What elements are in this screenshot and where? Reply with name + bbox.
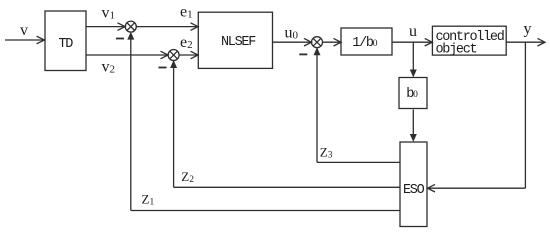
label y (524, 21, 532, 38)
svg-text:Z1: Z1 (142, 192, 155, 208)
wire u 1/b0 to controlled object (392, 38, 432, 46)
summing junction J3 (312, 37, 323, 48)
wire y feedback down and into ESO (428, 42, 526, 192)
label v1 (102, 5, 116, 22)
svg-text:u: u (409, 23, 417, 40)
svg-text:v1: v1 (102, 5, 116, 22)
label u0 (285, 24, 299, 41)
block 1/b0 (341, 28, 392, 55)
label Z2 (181, 169, 194, 185)
block ESO (400, 142, 427, 227)
svg-text:v2: v2 (102, 59, 116, 76)
summing junction J2 (168, 50, 179, 61)
wire u branch down to b0 (410, 42, 417, 77)
svg-text:e1: e1 (180, 4, 193, 21)
svg-text:object: object (436, 43, 477, 58)
svg-text:NLSEF: NLSEF (221, 35, 256, 50)
wire J3 to 1/b0 (322, 38, 341, 46)
wire u0 NLSEF to J3 (273, 38, 312, 46)
label Z1 (142, 192, 155, 208)
wire Z2 ESO to J2 (170, 60, 400, 187)
svg-text:y: y (524, 21, 532, 38)
wire v input arrow (5, 36, 45, 44)
minus sign at J1 (116, 38, 124, 40)
svg-text:Z3: Z3 (320, 144, 333, 160)
svg-text:Z2: Z2 (181, 169, 194, 185)
label v2 (102, 59, 116, 76)
label e1 (180, 4, 193, 21)
block controlled object (432, 26, 506, 57)
svg-text:e2: e2 (180, 34, 193, 51)
svg-text:ESO: ESO (403, 183, 425, 198)
wire v1 TD to J1 (86, 23, 125, 31)
label e2 (180, 34, 193, 51)
wire v2 TD to J2 (86, 51, 168, 59)
wire y output (506, 38, 545, 46)
block TD (45, 11, 86, 71)
wire b0 down to ESO (410, 110, 417, 142)
svg-text:TD: TD (59, 37, 74, 52)
wire e2 J2 to NLSEF (179, 51, 198, 59)
minus sign at J3 (299, 53, 307, 55)
summing junction J1 (125, 21, 136, 32)
label Z3 (320, 144, 333, 160)
label v (20, 22, 28, 39)
block NLSEF (198, 12, 272, 68)
wire Z3 ESO to J3 (314, 47, 401, 162)
svg-text:u0: u0 (285, 24, 299, 41)
block b0 (399, 78, 427, 109)
wire e1 J1 to NLSEF (136, 23, 198, 31)
svg-text:b0: b0 (406, 87, 418, 102)
svg-text:v: v (20, 22, 28, 39)
wire Z1 ESO to J1 (127, 32, 400, 211)
label u (409, 23, 417, 40)
svg-text:1/b0: 1/b0 (352, 36, 377, 51)
minus sign at J2 (159, 67, 167, 69)
